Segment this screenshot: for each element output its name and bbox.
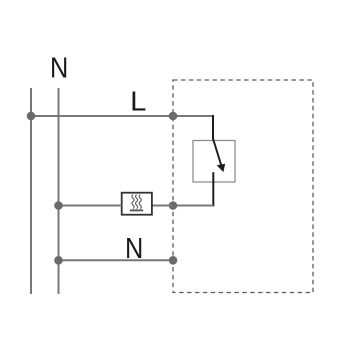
wire: heater right lead [152,205,173,207]
wire: N supply bus (right vertical) [58,88,60,294]
svg-text:N: N [50,51,68,84]
enclosure: thermostat dashed outline [173,80,313,293]
heat wave 3 [139,195,141,209]
node: junction dot N feed on N bus [54,256,63,265]
wire: switched live from switch to heater terminal [173,205,213,207]
heating element E1 (floor heating load) [122,193,152,215]
switch S1 top pin [212,115,214,140]
node: switched-live terminal dot on enclosure edge [169,201,178,210]
heat wave 1 [132,195,134,209]
svg-text:L: L [130,86,146,117]
svg-text:N: N [125,231,143,264]
node: junction dot heater lead on N bus [54,201,63,210]
switch S1 body (relay contact box) [193,141,235,183]
wire: heater left lead to N bus [59,205,122,207]
wire: N feed from N bus to enclosure [59,259,174,261]
switch S1 contact arm [213,138,221,165]
switch S1 arrowhead [217,164,226,173]
node: L terminal dot on enclosure edge [169,112,178,121]
wire: L feed from L bus to switch [31,115,213,117]
node: junction dot on L bus [27,112,36,121]
wire: L supply bus (left vertical) [30,88,32,294]
switch S1 bottom pin [212,172,214,206]
node: N terminal dot on enclosure edge [169,256,178,265]
heat wave 2 [136,195,138,209]
floor bar of heating symbol [130,209,143,211]
